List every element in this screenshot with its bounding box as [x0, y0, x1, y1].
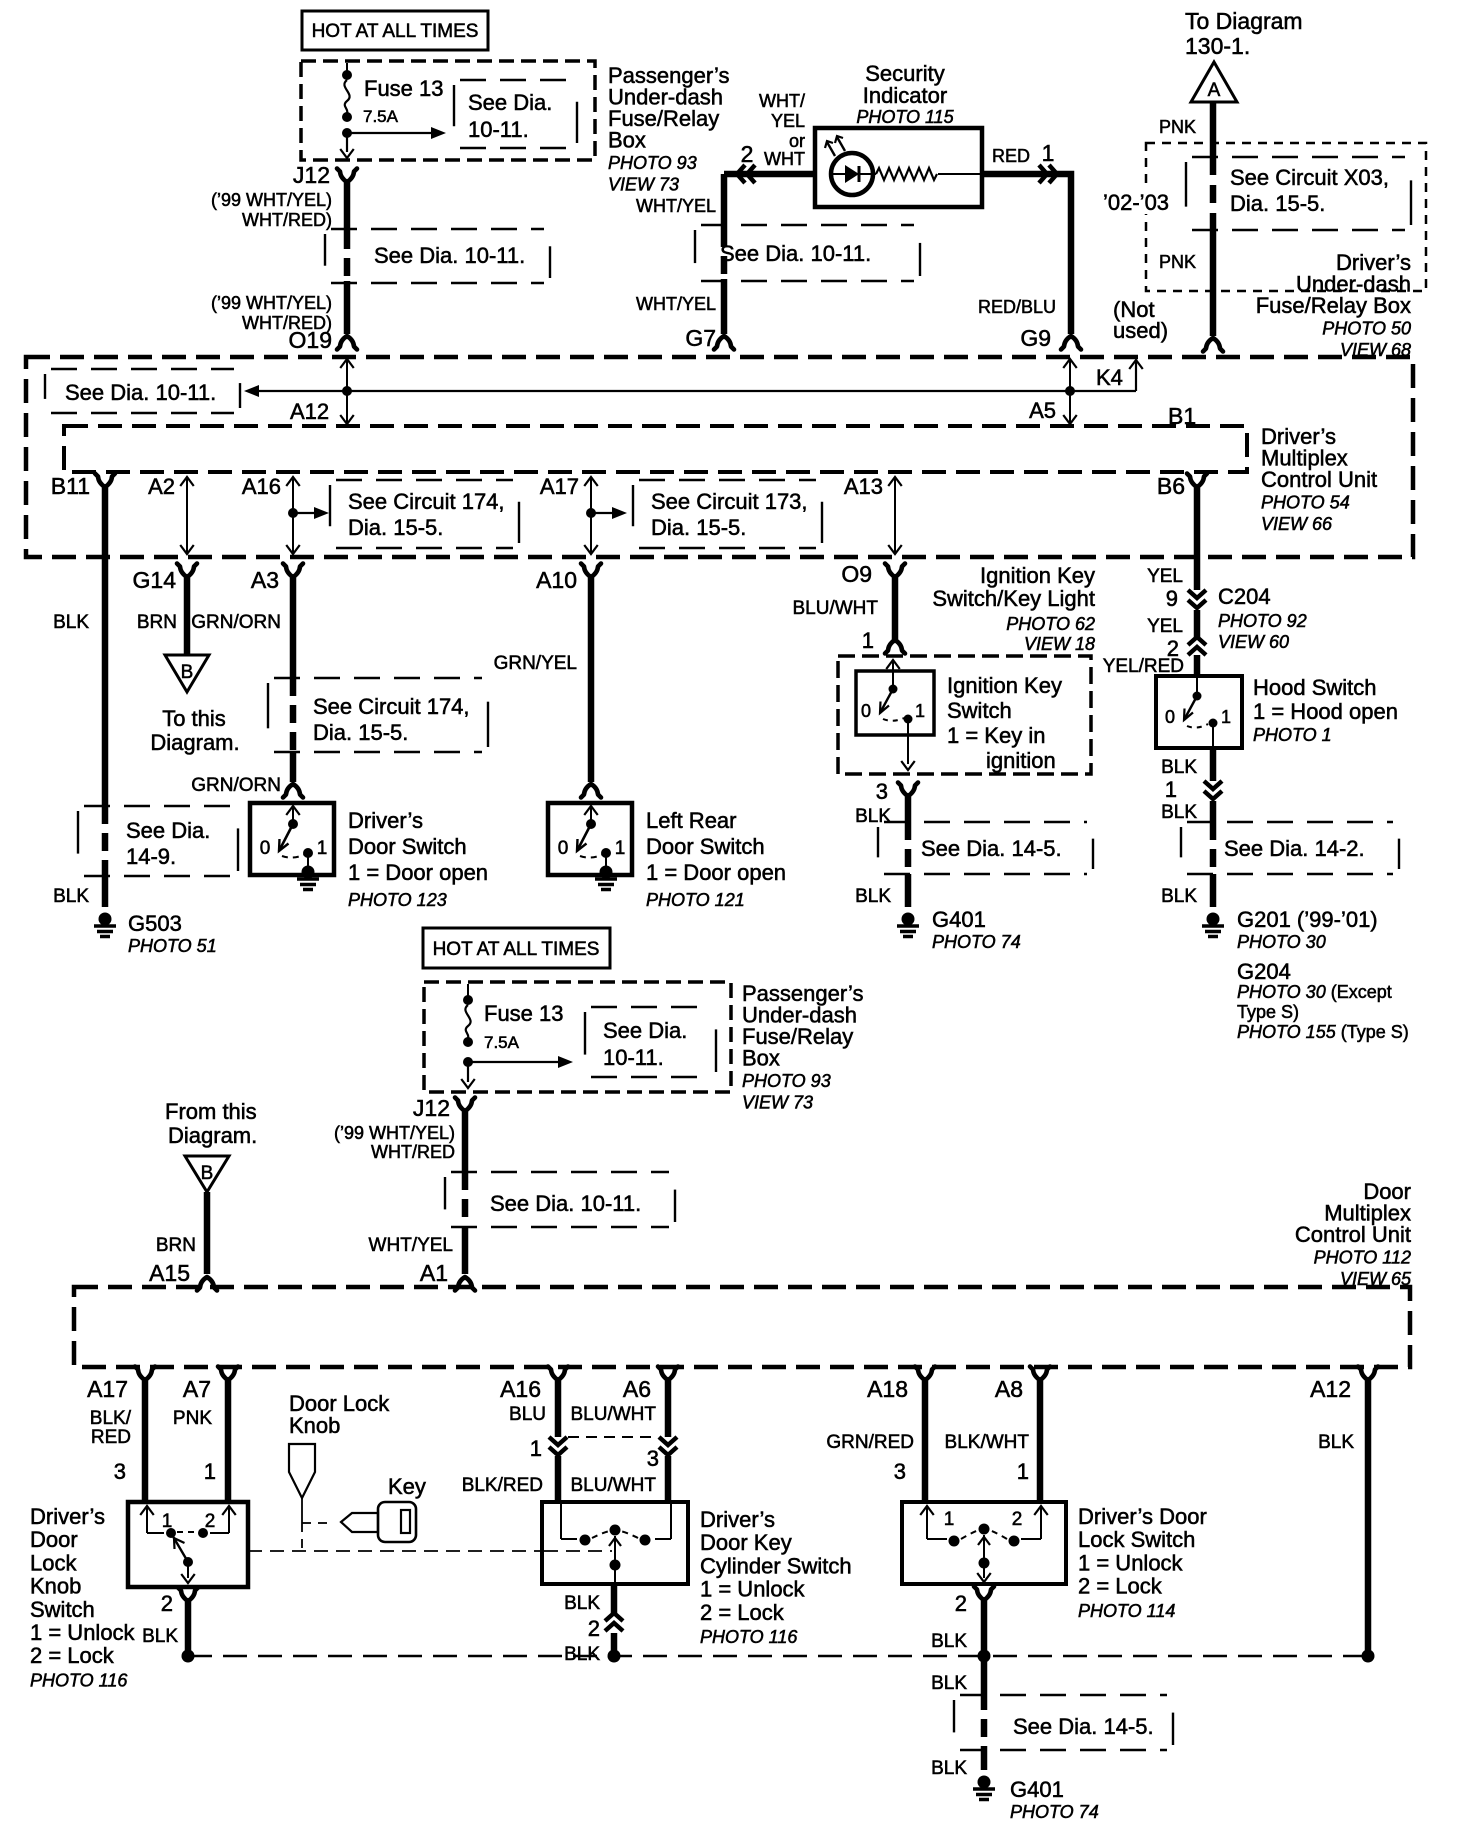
svg-text:See Dia. 10-11.: See Dia. 10-11.: [65, 380, 216, 405]
svg-text:See Dia. 10-11.: See Dia. 10-11.: [720, 241, 871, 266]
svg-text:See Dia. 14-5.: See Dia. 14-5.: [921, 836, 1062, 861]
svg-text:(’99 WHT/YEL): (’99 WHT/YEL): [211, 190, 332, 210]
svg-text:Door: Door: [30, 1527, 78, 1552]
svg-text:Type S): Type S): [1237, 1002, 1299, 1022]
svg-text:See Circuit 174,: See Circuit 174,: [348, 489, 505, 514]
svg-text:1: 1: [530, 1436, 542, 1461]
svg-text:VIEW 18: VIEW 18: [1024, 634, 1095, 654]
svg-text:PHOTO 30: PHOTO 30: [1237, 932, 1326, 952]
svg-text:B: B: [181, 662, 194, 683]
svg-text:WHT/: WHT/: [759, 91, 805, 111]
svg-text:See Dia.: See Dia.: [468, 90, 552, 115]
svg-text:BLK: BLK: [53, 886, 89, 907]
svg-text:Fuse 13: Fuse 13: [364, 76, 444, 101]
svg-text:Dia. 15-5.: Dia. 15-5.: [651, 515, 746, 540]
svg-text:Box: Box: [742, 1046, 780, 1071]
svg-text:O19: O19: [289, 327, 332, 353]
svg-text:used): used): [1113, 318, 1168, 343]
svg-text:BLU/WHT: BLU/WHT: [571, 1475, 657, 1496]
svg-text:9: 9: [1166, 586, 1178, 611]
svg-text:PHOTO 93: PHOTO 93: [608, 153, 697, 173]
svg-text:1 = Unlock: 1 = Unlock: [1078, 1550, 1184, 1575]
svg-text:YEL: YEL: [1147, 566, 1183, 587]
svg-text:2 = Lock: 2 = Lock: [1078, 1574, 1163, 1599]
svg-text:HOT AT ALL TIMES: HOT AT ALL TIMES: [312, 21, 479, 42]
svg-text:BLK: BLK: [931, 1631, 967, 1652]
svg-text:See Circuit X03,: See Circuit X03,: [1230, 165, 1389, 190]
svg-text:Ignition Key: Ignition Key: [980, 563, 1095, 588]
svg-text:Box: Box: [608, 128, 646, 153]
svg-text:(’99 WHT/YEL): (’99 WHT/YEL): [334, 1123, 455, 1143]
svg-text:BLK: BLK: [1161, 802, 1197, 823]
svg-text:Indicator: Indicator: [863, 83, 947, 108]
svg-text:BLK: BLK: [564, 1593, 600, 1614]
svg-text:GRN/ORN: GRN/ORN: [191, 775, 281, 796]
svg-text:PNK: PNK: [173, 1408, 212, 1429]
svg-text:1: 1: [944, 1509, 955, 1530]
svg-text:Switch/Key Light: Switch/Key Light: [932, 586, 1095, 611]
svg-text:G7: G7: [685, 325, 716, 351]
svg-text:Driver’s: Driver’s: [700, 1507, 775, 1532]
svg-text:7.5A: 7.5A: [363, 107, 399, 126]
svg-text:A17: A17: [87, 1376, 128, 1402]
svg-text:BLK: BLK: [931, 1673, 967, 1694]
svg-text:Dia. 15-5.: Dia. 15-5.: [1230, 191, 1325, 216]
svg-text:Control Unit: Control Unit: [1295, 1222, 1411, 1247]
svg-text:1: 1: [862, 628, 874, 653]
svg-text:130-1.: 130-1.: [1185, 33, 1250, 59]
svg-text:BLK/RED: BLK/RED: [462, 1475, 543, 1496]
svg-text:To Diagram: To Diagram: [1185, 8, 1303, 34]
svg-text:B1: B1: [1168, 403, 1196, 429]
svg-text:A13: A13: [844, 474, 883, 499]
svg-text:To this: To this: [162, 706, 226, 731]
svg-text:PHOTO 50: PHOTO 50: [1322, 319, 1411, 339]
svg-text:1 = Unlock: 1 = Unlock: [700, 1577, 806, 1602]
svg-text:See Circuit 173,: See Circuit 173,: [651, 489, 808, 514]
svg-text:Driver’s Door: Driver’s Door: [1078, 1504, 1207, 1529]
svg-text:O9: O9: [841, 561, 872, 587]
svg-text:GRN/RED: GRN/RED: [826, 1432, 914, 1453]
svg-text:ignition: ignition: [986, 748, 1056, 773]
svg-text:GRN/YEL: GRN/YEL: [494, 653, 577, 674]
svg-text:Lock Switch: Lock Switch: [1078, 1527, 1195, 1552]
svg-text:2 = Lock: 2 = Lock: [700, 1600, 785, 1625]
svg-text:Control Unit: Control Unit: [1261, 467, 1377, 492]
svg-text:PHOTO 116: PHOTO 116: [700, 1627, 798, 1647]
svg-text:1: 1: [615, 838, 626, 859]
svg-text:HOT AT ALL TIMES: HOT AT ALL TIMES: [433, 939, 600, 960]
svg-text:See Circuit 174,: See Circuit 174,: [313, 694, 470, 719]
svg-text:VIEW 73: VIEW 73: [742, 1093, 813, 1113]
svg-text:PHOTO 74: PHOTO 74: [1010, 1802, 1099, 1822]
svg-text:BLK: BLK: [1318, 1432, 1354, 1453]
svg-text:G14: G14: [133, 567, 177, 593]
svg-text:10-11.: 10-11.: [603, 1045, 664, 1070]
svg-text:or: or: [789, 131, 805, 151]
svg-text:G201 (’99-’01): G201 (’99-’01): [1237, 907, 1378, 932]
svg-text:WHT/RED: WHT/RED: [371, 1142, 455, 1162]
svg-text:YEL/RED: YEL/RED: [1103, 656, 1184, 677]
svg-text:Fuse/Relay Box: Fuse/Relay Box: [1256, 293, 1411, 318]
svg-text:G401: G401: [932, 907, 986, 932]
svg-text:A1: A1: [420, 1260, 448, 1286]
svg-text:PHOTO 74: PHOTO 74: [932, 932, 1021, 952]
svg-text:A: A: [1208, 80, 1221, 101]
svg-text:1: 1: [915, 701, 925, 721]
svg-text:10-11.: 10-11.: [468, 117, 529, 142]
svg-text:0: 0: [1165, 707, 1175, 727]
svg-text:1: 1: [1042, 140, 1055, 166]
svg-text:0: 0: [260, 838, 271, 859]
svg-text:PHOTO 115: PHOTO 115: [856, 107, 954, 127]
svg-text:A15: A15: [149, 1260, 190, 1286]
svg-text:RED/BLU: RED/BLU: [978, 297, 1056, 317]
svg-text:PHOTO 30 (Except: PHOTO 30 (Except: [1237, 982, 1392, 1002]
svg-text:A16: A16: [242, 474, 281, 499]
svg-text:C204: C204: [1218, 584, 1271, 609]
svg-text:3: 3: [876, 779, 888, 804]
svg-text:B6: B6: [1157, 473, 1185, 499]
svg-text:0: 0: [558, 838, 569, 859]
svg-text:2: 2: [161, 1591, 173, 1616]
svg-text:3: 3: [647, 1446, 659, 1471]
svg-text:BLK/: BLK/: [90, 1408, 132, 1429]
svg-text:BRN: BRN: [156, 1235, 196, 1256]
svg-text:Diagram.: Diagram.: [150, 730, 239, 755]
svg-text:B11: B11: [51, 473, 90, 499]
svg-text:PHOTO 92: PHOTO 92: [1218, 611, 1307, 631]
svg-text:WHT: WHT: [764, 149, 805, 169]
svg-text:A12: A12: [1310, 1376, 1351, 1402]
svg-text:PHOTO 54: PHOTO 54: [1261, 493, 1350, 513]
svg-text:1 = Key in: 1 = Key in: [947, 723, 1045, 748]
svg-text:Left Rear: Left Rear: [646, 808, 737, 833]
svg-text:BLK/WHT: BLK/WHT: [945, 1432, 1030, 1453]
svg-text:YEL: YEL: [771, 111, 805, 131]
svg-text:PHOTO 51: PHOTO 51: [128, 936, 217, 956]
svg-text:A16: A16: [500, 1376, 541, 1402]
svg-text:Driver’s: Driver’s: [30, 1504, 105, 1529]
svg-text:2 = Lock: 2 = Lock: [30, 1643, 115, 1668]
svg-text:PHOTO 93: PHOTO 93: [742, 1071, 831, 1091]
svg-text:VIEW 66: VIEW 66: [1261, 514, 1333, 534]
svg-text:BLU/WHT: BLU/WHT: [793, 598, 879, 619]
svg-text:A7: A7: [183, 1376, 211, 1402]
svg-text:PHOTO 116: PHOTO 116: [30, 1670, 128, 1690]
svg-text:VIEW 60: VIEW 60: [1218, 632, 1289, 652]
svg-text:VIEW 73: VIEW 73: [608, 175, 679, 195]
svg-text:Switch: Switch: [947, 698, 1012, 723]
svg-text:RED: RED: [91, 1427, 131, 1448]
svg-text:Knob: Knob: [289, 1413, 340, 1438]
svg-text:BLK: BLK: [53, 612, 89, 633]
svg-text:1: 1: [317, 838, 328, 859]
svg-text:7.5A: 7.5A: [484, 1033, 520, 1052]
svg-text:A12: A12: [290, 399, 329, 424]
svg-text:1: 1: [162, 1511, 173, 1532]
svg-text:PHOTO 1: PHOTO 1: [1253, 725, 1332, 745]
svg-text:1: 1: [1165, 777, 1177, 802]
svg-text:WHT/YEL: WHT/YEL: [636, 294, 716, 314]
svg-text:BLK: BLK: [931, 1758, 967, 1779]
svg-text:Key: Key: [388, 1474, 426, 1499]
svg-text:A6: A6: [623, 1376, 651, 1402]
svg-text:G503: G503: [128, 911, 182, 936]
svg-text:YEL: YEL: [1147, 616, 1183, 637]
svg-text:G204: G204: [1237, 959, 1291, 984]
svg-text:BLK: BLK: [1161, 886, 1197, 907]
svg-text:WHT/RED): WHT/RED): [242, 210, 332, 230]
svg-text:BLK: BLK: [564, 1644, 600, 1665]
svg-text:Door Key: Door Key: [700, 1530, 792, 1555]
svg-text:J12: J12: [293, 162, 330, 188]
svg-text:BLK: BLK: [855, 886, 891, 907]
svg-text:Driver’s: Driver’s: [348, 808, 423, 833]
svg-text:BLK: BLK: [855, 806, 891, 827]
svg-text:Door Switch: Door Switch: [646, 834, 765, 859]
svg-text:1 = Hood open: 1 = Hood open: [1253, 699, 1398, 724]
svg-text:Ignition Key: Ignition Key: [947, 673, 1062, 698]
svg-text:A10: A10: [536, 567, 577, 593]
svg-text:GRN/ORN: GRN/ORN: [191, 612, 281, 633]
svg-text:G401: G401: [1010, 1777, 1064, 1802]
svg-text:Diagram.: Diagram.: [168, 1123, 257, 1148]
svg-text:B: B: [201, 1163, 214, 1184]
svg-text:See Dia.: See Dia.: [126, 818, 210, 843]
svg-text:From this: From this: [165, 1099, 257, 1124]
svg-text:G9: G9: [1020, 325, 1051, 351]
svg-text:See Dia. 14-2.: See Dia. 14-2.: [1224, 836, 1365, 861]
svg-text:See Dia.: See Dia.: [603, 1018, 687, 1043]
svg-text:2: 2: [741, 141, 754, 167]
svg-text:3: 3: [894, 1459, 906, 1484]
svg-text:A17: A17: [540, 474, 579, 499]
svg-text:WHT/YEL: WHT/YEL: [369, 1235, 453, 1256]
svg-text:Dia. 15-5.: Dia. 15-5.: [348, 515, 443, 540]
svg-text:1 = Door open: 1 = Door open: [348, 860, 488, 885]
svg-text:1: 1: [1221, 707, 1231, 727]
svg-text:J12: J12: [413, 1095, 450, 1121]
svg-text:BLU/WHT: BLU/WHT: [571, 1404, 657, 1425]
svg-text:A5: A5: [1029, 398, 1056, 423]
svg-text:See Dia. 10-11.: See Dia. 10-11.: [490, 1191, 641, 1216]
svg-text:BLK: BLK: [142, 1626, 178, 1647]
svg-text:’02-’03: ’02-’03: [1103, 190, 1169, 215]
svg-text:1: 1: [1017, 1459, 1029, 1484]
svg-text:Fuse 13: Fuse 13: [484, 1001, 564, 1026]
svg-text:A8: A8: [995, 1376, 1023, 1402]
svg-text:A2: A2: [148, 474, 175, 499]
svg-text:Cylinder Switch: Cylinder Switch: [700, 1553, 852, 1578]
svg-text:BLU: BLU: [509, 1404, 546, 1425]
svg-text:2: 2: [955, 1591, 967, 1616]
svg-text:See Dia. 14-5.: See Dia. 14-5.: [1013, 1714, 1154, 1739]
svg-text:14-9.: 14-9.: [126, 844, 176, 869]
svg-text:Door Switch: Door Switch: [348, 834, 467, 859]
svg-text:0: 0: [861, 701, 871, 721]
svg-text:1: 1: [204, 1459, 216, 1484]
svg-text:RED: RED: [992, 146, 1030, 166]
svg-text:Hood Switch: Hood Switch: [1253, 675, 1377, 700]
svg-text:PNK: PNK: [1159, 252, 1196, 272]
svg-text:2: 2: [588, 1616, 600, 1641]
svg-text:Switch: Switch: [30, 1597, 95, 1622]
svg-text:See Dia. 10-11.: See Dia. 10-11.: [374, 243, 525, 268]
svg-text:BRN: BRN: [137, 612, 177, 633]
svg-text:A18: A18: [867, 1376, 908, 1402]
svg-text:Lock: Lock: [30, 1550, 77, 1575]
svg-text:PNK: PNK: [1159, 117, 1196, 137]
svg-text:Dia. 15-5.: Dia. 15-5.: [313, 720, 408, 745]
svg-text:2: 2: [205, 1511, 216, 1532]
svg-text:PHOTO 62: PHOTO 62: [1006, 614, 1095, 634]
svg-text:BLK: BLK: [1161, 757, 1197, 778]
svg-text:PHOTO 121: PHOTO 121: [646, 890, 745, 910]
svg-text:PHOTO 114: PHOTO 114: [1078, 1601, 1175, 1621]
svg-text:1 = Door open: 1 = Door open: [646, 860, 786, 885]
svg-text:WHT/YEL: WHT/YEL: [636, 196, 716, 216]
svg-text:PHOTO 123: PHOTO 123: [348, 890, 447, 910]
svg-text:3: 3: [114, 1459, 126, 1484]
svg-text:PHOTO 155 (Type S): PHOTO 155 (Type S): [1237, 1022, 1409, 1042]
svg-text:(’99 WHT/YEL): (’99 WHT/YEL): [211, 293, 332, 313]
svg-text:PHOTO 112: PHOTO 112: [1314, 1248, 1411, 1268]
svg-text:2: 2: [1012, 1509, 1023, 1530]
svg-text:A3: A3: [251, 567, 279, 593]
svg-text:Knob: Knob: [30, 1574, 81, 1599]
svg-text:1 = Unlock: 1 = Unlock: [30, 1620, 136, 1645]
svg-text:K4: K4: [1096, 365, 1123, 390]
